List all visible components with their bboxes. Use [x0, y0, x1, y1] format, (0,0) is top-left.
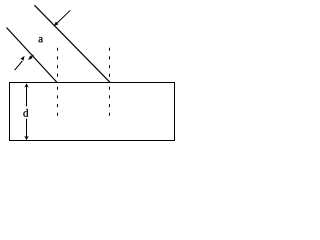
beam width arrow C (upper-right, points down-left at ray 2)	[54, 10, 71, 26]
arrowhead down	[24, 136, 29, 140]
incident ray 1 (left)	[7, 28, 58, 83]
thickness arrow d upper segment	[26, 84, 28, 106]
incident ray 2 (right)	[34, 5, 110, 82]
dashed normal 2 upper	[109, 48, 111, 77]
thickness arrow d lower segment	[26, 119, 28, 139]
slab rectangle	[10, 83, 175, 141]
dashed normal 1 upper	[57, 48, 59, 77]
dashed normal 1 lower	[57, 87, 59, 116]
beam width arrow A (lower-left, points up-right at ray 1)	[15, 56, 25, 70]
label d	[23, 109, 28, 117]
dashed normal 2 lower	[109, 87, 111, 116]
arrowhead up	[24, 83, 29, 87]
label a	[39, 37, 43, 42]
beam width arrow B (on ray 1, points down-left)	[28, 55, 33, 60]
